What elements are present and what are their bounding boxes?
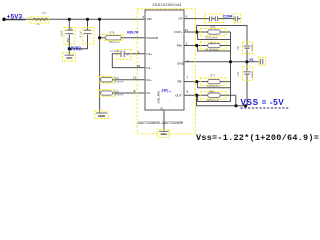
svg-text:12: 12: [133, 76, 137, 80]
svg-text:4: 4: [187, 59, 189, 63]
svg-text:FB-: FB-: [178, 80, 183, 84]
svg-text:VSS = -5V: VSS = -5V: [241, 98, 285, 107]
svg-text:R82: R82: [209, 89, 214, 93]
svg-text:PGOOD: PGOOD: [147, 36, 159, 40]
svg-text:R61: R61: [211, 25, 216, 29]
svg-text:C154F: C154F: [223, 15, 233, 19]
svg-text:8: 8: [134, 89, 136, 93]
svg-text:3: 3: [142, 15, 144, 19]
svg-text:10: 10: [137, 64, 141, 68]
svg-text:OUT-: OUT-: [175, 93, 182, 97]
svg-text:FB+: FB+: [177, 44, 183, 48]
svg-text:VIN: VIN: [147, 17, 152, 21]
svg-text:1: 1: [70, 27, 72, 31]
svg-text:C7 104F: C7 104F: [110, 49, 120, 53]
svg-text:2: 2: [186, 42, 188, 46]
svg-text:C62: C62: [236, 71, 240, 76]
svg-text:200Kohms: 200Kohms: [206, 98, 219, 102]
svg-text:IN-: IN-: [147, 91, 151, 95]
svg-text:C61: C61: [236, 45, 240, 50]
svg-text:2F: 2F: [126, 52, 129, 56]
svg-text:7: 7: [187, 76, 189, 80]
svg-text:4.7uF: 4.7uF: [79, 30, 83, 37]
svg-text:OUT+: OUT+: [174, 30, 183, 34]
svg-text:R74: R74: [110, 30, 115, 34]
svg-text:C1-: C1-: [147, 66, 152, 70]
svg-text:6: 6: [187, 89, 189, 93]
svg-text:22uF: 22uF: [250, 71, 254, 77]
svg-text:9: 9: [137, 50, 139, 54]
svg-text:GA0774206RRL-GA0774206RR: GA0774206RRL-GA0774206RR: [138, 121, 184, 125]
svg-text:22uF: 22uF: [60, 30, 64, 36]
svg-text:R89,7R: R89,7R: [127, 31, 139, 35]
svg-text:2.2uF: 2.2uF: [250, 44, 254, 51]
svg-text:11: 11: [185, 28, 188, 32]
svg-text:CF: CF: [178, 17, 182, 21]
svg-text:34.8Kohms: 34.8Kohms: [207, 84, 221, 88]
svg-text:C1+: C1+: [147, 52, 153, 56]
svg-text:5: 5: [186, 15, 188, 19]
svg-text:L73: L73: [42, 11, 47, 15]
svg-text:AD0: AD0: [162, 88, 168, 92]
svg-text:Vss=-1.22*(1+200/64.9)=: Vss=-1.22*(1+200/64.9)=: [196, 133, 319, 143]
svg-text:GND: GND: [177, 61, 185, 65]
svg-text:VS: VS: [249, 58, 253, 62]
svg-text:0Kohms: 0Kohms: [114, 93, 124, 97]
svg-text:200Kohms: 200Kohms: [205, 36, 218, 40]
svg-text:64.9Kohms: 64.9Kohms: [205, 47, 219, 51]
svg-text:10Kohms: 10Kohms: [109, 40, 121, 44]
svg-text:R76: R76: [210, 41, 215, 45]
svg-text:13: 13: [160, 107, 164, 111]
svg-text:R77: R77: [210, 74, 215, 78]
svg-text:2DG100000444: 2DG100000444: [153, 3, 182, 7]
svg-text:2: 2: [66, 38, 69, 43]
svg-text:+5V3: +5V3: [7, 13, 23, 20]
svg-text:IN+: IN+: [147, 78, 152, 82]
svg-text:0Kohms: 0Kohms: [114, 79, 124, 83]
svg-text:GND_PAD: GND_PAD: [156, 91, 160, 103]
